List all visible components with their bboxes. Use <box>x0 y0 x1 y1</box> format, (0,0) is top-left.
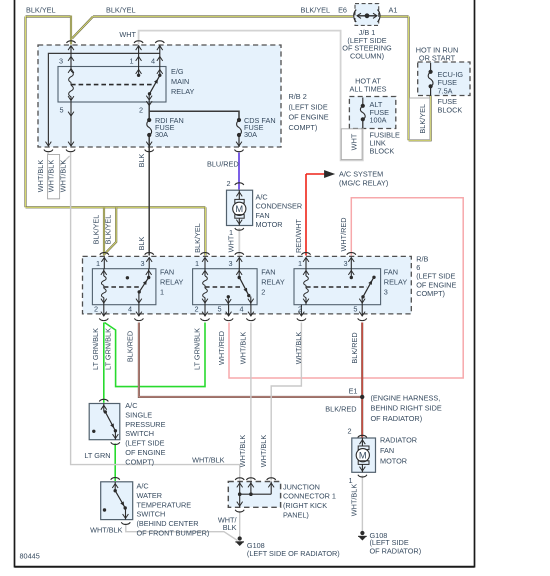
connector fan relay 2 pin 4 at R/B6 bottom edge <box>246 305 255 321</box>
E/G main relay pin 3 stub <box>68 46 74 67</box>
fan relay 3 coil <box>303 269 309 305</box>
svg-text:30A: 30A <box>155 130 168 139</box>
svg-text:LT GRN/BLK: LT GRN/BLK <box>103 328 112 370</box>
connector fan relay 3 pin 3 at R/B6 top edge <box>347 253 356 269</box>
svg-text:LT GRN/BLK: LT GRN/BLK <box>193 328 202 370</box>
svg-text:4: 4 <box>151 57 155 66</box>
svg-text:BLK/YEL: BLK/YEL <box>104 215 113 245</box>
wire BLK/RED fan relay 1 pin 4 to splice E1 <box>139 323 362 397</box>
wire BLK E/G relay pin 2 to RDI fan fuse <box>148 102 150 120</box>
svg-text:COLUMN): COLUMN) <box>350 51 384 60</box>
R/B 6 relay block box (fan relays row) <box>83 256 412 314</box>
svg-text:WHT: WHT <box>349 133 358 150</box>
svg-text:2: 2 <box>347 427 351 436</box>
E/G main relay pin 1 stub <box>136 46 142 67</box>
connector fan relay 1 pin 4 at R/B6 bottom edge <box>134 305 143 321</box>
white label plate BLK/YEL (ecu-ig feed) <box>409 98 429 140</box>
connector condenser motor pin 2 <box>235 183 244 185</box>
connector junction top pin c <box>267 478 276 480</box>
connector fan relay 3 pin 5 at R/B6 bottom edge <box>358 305 367 321</box>
svg-text:E6: E6 <box>338 6 347 15</box>
svg-text:OF FRONT BUMPER): OF FRONT BUMPER) <box>137 529 210 538</box>
fan relay 1 switch arm and pin 4 leg <box>136 278 148 305</box>
svg-text:2: 2 <box>298 305 302 314</box>
A/C system arrowhead <box>325 171 335 178</box>
svg-text:BLK/RED: BLK/RED <box>350 332 359 363</box>
svg-text:RELAY: RELAY <box>171 87 195 96</box>
svg-text:WHT: WHT <box>119 30 136 39</box>
E/G main relay inner box <box>58 67 166 103</box>
svg-text:WHT/BLK: WHT/BLK <box>238 332 247 365</box>
svg-text:CONNECTOR 1: CONNECTOR 1 <box>283 492 336 501</box>
svg-text:3: 3 <box>343 259 347 268</box>
svg-text:1: 1 <box>195 259 199 268</box>
fan relay 1 coil <box>101 269 107 305</box>
fan relay 1 control dashed line <box>104 286 141 288</box>
ground G108 (junction connector) <box>239 537 241 541</box>
svg-text:MOTOR: MOTOR <box>256 220 283 229</box>
wire LT GRN pressure switch to water temp switch <box>114 444 116 482</box>
connector R/B2 exit pin 5 <box>66 150 75 152</box>
svg-text:2: 2 <box>94 305 98 314</box>
svg-text:3: 3 <box>228 259 232 268</box>
connector junction top pin a <box>235 478 244 480</box>
E/G main relay pin 2 drop <box>146 101 152 105</box>
svg-text:FAN: FAN <box>160 268 174 277</box>
svg-text:100A: 100A <box>370 116 387 125</box>
connector R/B2 exit CDS fuse <box>235 150 244 152</box>
svg-text:RED/WHT: RED/WHT <box>294 218 303 253</box>
page border bottom <box>15 566 475 568</box>
svg-text:1: 1 <box>129 57 133 66</box>
svg-text:5: 5 <box>217 305 221 314</box>
svg-text:BLK/YEL: BLK/YEL <box>106 6 136 15</box>
connector junction top pin b <box>246 478 255 480</box>
svg-text:FAN: FAN <box>256 211 270 220</box>
wire BLK/YEL tap to fan relay 2 pin 1 <box>204 207 206 255</box>
wire BLK/YEL top-left horizontal <box>26 15 72 17</box>
svg-text:RADIATOR: RADIATOR <box>380 436 417 445</box>
svg-text:A/C: A/C <box>125 401 137 410</box>
svg-text:WHT/BLK: WHT/BLK <box>294 332 303 365</box>
A/C single pressure switch <box>89 404 120 440</box>
svg-text:SINGLE: SINGLE <box>125 410 152 419</box>
svg-text:OF ENGINE: OF ENGINE <box>125 448 165 457</box>
wire BLU/RED CDS fuse to condenser fan motor pin 2 <box>238 153 240 190</box>
svg-text:2: 2 <box>261 288 265 297</box>
svg-text:BLK: BLK <box>137 153 146 167</box>
svg-text:80445: 80445 <box>20 552 40 561</box>
J/B 1 left bracket (E6) <box>354 10 356 22</box>
white label plate WHT (alt fuse feed) <box>341 129 362 160</box>
fan relay 2 switch arm and pin 4 leg <box>240 278 254 305</box>
svg-text:OF RADIATOR): OF RADIATOR) <box>371 414 423 423</box>
svg-text:PANEL): PANEL) <box>283 510 309 519</box>
fan relay 2 pin 5 contact stub <box>225 295 231 305</box>
E/G main relay switch contact pin 1 <box>136 67 142 78</box>
A/C water temperature switch <box>101 482 133 520</box>
svg-text:WHT/BLK: WHT/BLK <box>36 160 45 193</box>
fuse CDS FAN 30A symbol <box>237 118 241 122</box>
wire BLK stub below CDS fuse <box>238 135 240 147</box>
exit chevron R/B2 bottom RDI <box>146 142 152 146</box>
wire BLK/RED fan relay 3 pin 5 through E1 to radiator fan motor <box>361 323 363 438</box>
A/C condenser fan motor M1 <box>227 190 253 225</box>
wire WHT/BLK fan relay 2 pin 4 to junction connector 1 <box>250 323 252 481</box>
svg-text:3: 3 <box>59 57 63 66</box>
svg-text:COMPT): COMPT) <box>289 123 318 132</box>
svg-text:1: 1 <box>96 259 100 268</box>
fan relay 2 pin 3 contact <box>236 269 242 279</box>
wire BLK/YEL tap to fan relay 1 pin 1 <box>103 207 105 255</box>
wire RED/WHT horizontal to A/C system arrow <box>306 173 325 175</box>
wire stub below ECU-IG fuse <box>430 86 432 96</box>
svg-text:WHT/BLK: WHT/BLK <box>46 160 55 193</box>
svg-text:BLOCK: BLOCK <box>370 146 395 155</box>
junction connector 1 internal bus <box>237 482 274 508</box>
svg-text:1: 1 <box>298 259 302 268</box>
wire BLK RDI fuse to fan relay 1 pin 3 <box>148 135 150 256</box>
svg-text:WHT/BLK: WHT/BLK <box>238 435 247 468</box>
svg-text:E/G: E/G <box>171 67 184 76</box>
E/G main relay pin 2 leg <box>146 94 152 102</box>
svg-text:MAIN: MAIN <box>171 77 189 86</box>
E/G main relay switch arm <box>148 76 160 95</box>
svg-text:WHT/RED: WHT/RED <box>217 331 226 365</box>
ALT fuse box (fusible link block) <box>349 97 395 129</box>
svg-text:7.5A: 7.5A <box>438 86 453 95</box>
svg-text:3: 3 <box>384 288 388 297</box>
wire stub below ALT fuse <box>362 119 364 128</box>
connector fan relay 2 pin 1 at R/B6 top edge <box>201 253 210 269</box>
svg-text:TEMPERATURE: TEMPERATURE <box>137 500 192 509</box>
svg-text:2: 2 <box>139 106 143 115</box>
wire WHT/BLK junction connector 1 to ground G108 <box>239 511 241 537</box>
svg-text:A/C: A/C <box>137 482 149 491</box>
ground G108 (radiator fan motor) <box>361 531 363 535</box>
svg-text:(LEFT SIDE: (LEFT SIDE <box>125 439 164 448</box>
svg-text:BLK/YEL: BLK/YEL <box>418 104 427 134</box>
svg-text:R/B 2: R/B 2 <box>289 92 307 101</box>
connector radiator motor pin 2 <box>358 435 367 437</box>
wire WHT/BLK R/B2 exit A loop <box>48 153 70 199</box>
svg-text:3: 3 <box>140 259 144 268</box>
fan relay 1 inner box <box>92 269 155 305</box>
fan relay 1 spare contact dot <box>126 276 129 279</box>
connector pressure switch bottom <box>111 442 120 444</box>
exit chevron R/B2 bottom pin 5 <box>68 142 74 146</box>
svg-text:OR START: OR START <box>419 54 456 63</box>
connector fan relay 2 pin 2 at R/B6 bottom edge <box>201 305 210 321</box>
svg-text:MOTOR: MOTOR <box>380 457 407 466</box>
connector fan relay 3 pin 2 at R/B6 bottom edge <box>297 305 306 321</box>
fuse RDI FAN 30A symbol <box>147 118 151 122</box>
wire BLK/YEL diagonal from pin 3 to J/B1 run <box>72 17 93 39</box>
wire BLK/YEL left vertical down to relay feed <box>24 17 26 208</box>
wire BLK/YEL horizontal feed to fan relays <box>26 206 206 208</box>
E/G main relay control dashed line <box>71 84 152 86</box>
junction connector 1 box <box>228 482 280 508</box>
svg-text:PRESSURE: PRESSURE <box>125 420 165 429</box>
svg-text:COMPT): COMPT) <box>416 289 445 298</box>
fuse ECU-IG 7.5A symbol <box>428 63 433 88</box>
exit chevron R/B2 bottom wire A <box>46 142 52 146</box>
wire BLK/YEL second tap with diagonal to fan relay 1 pin 1 <box>105 207 117 254</box>
svg-text:1: 1 <box>348 476 352 485</box>
svg-text:FAN: FAN <box>380 446 394 455</box>
svg-text:BLK/RED: BLK/RED <box>325 405 356 414</box>
fan relay 3 control dashed line <box>306 286 367 288</box>
svg-text:WHT/BLK: WHT/BLK <box>350 484 359 517</box>
svg-text:A1: A1 <box>389 6 398 15</box>
fuse ALT 100A symbol <box>360 98 365 122</box>
page border left <box>14 0 16 568</box>
svg-text:(ENGINE HARNESS,: (ENGINE HARNESS, <box>371 394 441 403</box>
svg-text:30A: 30A <box>244 130 257 139</box>
wire RED/WHT from A/C system to fan relay 3 pin 1 <box>305 174 307 256</box>
svg-text:4: 4 <box>239 305 243 314</box>
connector condenser motor pin 1 <box>235 228 244 230</box>
connector fan relay 3 pin 1 at R/B6 top edge <box>302 253 311 269</box>
page border right <box>474 0 476 568</box>
J/B 1 right bracket (A1) <box>378 10 380 22</box>
fan relay 2 inner box <box>193 269 258 305</box>
svg-text:BLK: BLK <box>137 236 146 250</box>
svg-text:BEHIND RIGHT SIDE: BEHIND RIGHT SIDE <box>371 404 442 413</box>
wire WHT/BLK R/B2 pin5 exit down-left-down to junction connector 1 <box>71 153 240 481</box>
svg-text:WHT/BLK: WHT/BLK <box>259 435 268 468</box>
E/G main relay pin 5 leg below box <box>68 102 74 146</box>
svg-text:(LEFT SIDE: (LEFT SIDE <box>289 102 328 111</box>
svg-text:ALL TIMES: ALL TIMES <box>350 85 387 94</box>
connector E/G pin 1 at R/B2 edge <box>134 41 143 50</box>
wire WHT from E/G relay pin 1 to ALT fuse <box>139 31 363 161</box>
connector R/B2 exit A <box>44 150 53 152</box>
svg-text:1: 1 <box>229 228 233 237</box>
svg-text:5: 5 <box>353 305 357 314</box>
connector fan relay 1 pin 3 at R/B6 top edge <box>145 253 154 269</box>
J/B 1 junction block box <box>355 4 379 26</box>
svg-text:2: 2 <box>226 179 230 188</box>
svg-text:(MG/C RELAY): (MG/C RELAY) <box>339 179 388 188</box>
svg-text:CONDENSER: CONDENSER <box>256 202 303 211</box>
svg-text:BLK/YEL: BLK/YEL <box>301 6 331 15</box>
svg-text:WHT/RED: WHT/RED <box>339 217 348 251</box>
connector R/B2 exit RDI fuse <box>145 150 154 152</box>
wire BLK/YEL horizontal to J/B 1 (E6) <box>93 15 353 17</box>
svg-text:BLK/YEL: BLK/YEL <box>26 6 56 15</box>
wire WHT condenser fan motor pin 1 to fan relay 2 pin 3 <box>238 228 240 256</box>
wire LT GRN/BLK fan relay 1 pin 2 to pressure switch <box>103 323 105 403</box>
svg-text:FAN: FAN <box>384 268 398 277</box>
svg-text:WHT/BLK: WHT/BLK <box>58 160 67 193</box>
svg-text:WHT: WHT <box>227 235 236 252</box>
fan relay 1 pin 3 contact <box>146 269 152 279</box>
connector E/G pin 4 at R/B2 edge <box>155 41 164 50</box>
wire LT GRN/BLK branch to fan relay 2 pin 2 <box>105 323 206 387</box>
svg-text:1: 1 <box>160 288 164 297</box>
svg-text:RELAY: RELAY <box>261 278 285 287</box>
svg-text:(RIGHT KICK: (RIGHT KICK <box>283 501 327 510</box>
wire BLK branch to CDS fan fuse <box>149 111 239 120</box>
connector radiator motor pin 1 <box>358 475 367 477</box>
wire BLK/YEL drop to E/G relay pin 3 <box>70 16 72 45</box>
svg-text:SWITCH: SWITCH <box>137 510 166 519</box>
fan relay 3 switch arm and pin 5 leg <box>359 278 373 305</box>
radiator fan motor M2 <box>352 438 376 472</box>
fan relay 3 pin 3 contact <box>348 269 354 279</box>
wire BLK/YEL u-turn below ECU-IG fuse <box>409 96 431 141</box>
svg-text:OF RADIATOR): OF RADIATOR) <box>370 547 422 556</box>
J/B 1 internal junction dot <box>365 13 370 18</box>
svg-text:BLK/YEL: BLK/YEL <box>193 223 202 253</box>
E/G main relay pin 4 stub <box>157 46 163 67</box>
fan relay 2 coil <box>202 269 208 305</box>
connector fan relay 1 pin 1 at R/B6 top edge <box>100 253 109 269</box>
R/B 2 relay block box (left side of engine compt) <box>38 45 281 147</box>
svg-text:BLK/YEL: BLK/YEL <box>92 215 101 245</box>
white label plate WHT/BLK (middle wire) <box>48 155 60 199</box>
svg-text:E1: E1 <box>349 387 358 396</box>
svg-text:BLK: BLK <box>223 523 237 532</box>
connector fan relay 1 pin 2 at R/B6 bottom edge <box>99 305 108 321</box>
svg-text:JUNCTION: JUNCTION <box>283 482 320 491</box>
J/B 1 connector internal line with arrows <box>357 13 377 18</box>
junction connector 1 splice dots <box>238 492 242 496</box>
E/G main relay ground bus from pin 4 to exit A <box>48 53 159 146</box>
connector fan relay 2 pin 5 at R/B6 bottom edge <box>224 305 233 321</box>
svg-text:5: 5 <box>59 106 63 115</box>
svg-text:(BEHIND CENTER: (BEHIND CENTER <box>137 519 199 528</box>
svg-text:LT GRN/BLK: LT GRN/BLK <box>91 328 100 370</box>
svg-text:(LEFT SIDE OF RADIATOR): (LEFT SIDE OF RADIATOR) <box>247 549 340 558</box>
E/G main relay coil <box>68 67 74 103</box>
fan relay 3 inner box <box>294 269 381 305</box>
connector E/G pin 3 at R/B2 edge <box>67 41 76 50</box>
exit chevron R/B2 bottom CDS <box>236 142 242 146</box>
connector fan relay 2 pin 3 at R/B6 top edge <box>235 253 244 269</box>
svg-text:OF ENGINE: OF ENGINE <box>289 113 329 122</box>
E/G main relay switch contact pin 4 <box>157 67 163 78</box>
ECU-IG fuse box <box>418 62 470 96</box>
svg-text:WHT/BLK: WHT/BLK <box>90 526 123 535</box>
svg-text:RELAY: RELAY <box>384 278 408 287</box>
svg-text:BLK/RED: BLK/RED <box>126 331 135 362</box>
wire WHT/BLK radiator fan motor pin 1 to ground G108 <box>361 476 363 532</box>
svg-text:WATER: WATER <box>137 491 163 500</box>
fan relay 3 open contact dot <box>372 276 375 279</box>
svg-text:FAN: FAN <box>261 268 275 277</box>
splice E1 dot <box>360 395 364 399</box>
svg-text:4: 4 <box>128 305 132 314</box>
svg-text:A/C: A/C <box>256 192 268 201</box>
svg-text:RELAY: RELAY <box>160 278 184 287</box>
svg-text:LT GRN: LT GRN <box>84 451 110 460</box>
connector water temp switch top <box>111 478 120 480</box>
wire WHT/RED pink loop fan relay 2 pin 5 to fan relay 3 pin 3 <box>229 198 463 378</box>
svg-text:A/C SYSTEM: A/C SYSTEM <box>339 170 383 179</box>
svg-text:SWITCH: SWITCH <box>125 429 154 438</box>
svg-text:COMPT): COMPT) <box>125 457 154 466</box>
wire BLK/YEL from J/B 1 (A1) to right corner <box>381 15 409 17</box>
svg-text:2: 2 <box>194 305 198 314</box>
svg-text:WHT/BLK: WHT/BLK <box>192 456 225 465</box>
wire WHT/BLK water temp switch to ground G108 <box>126 524 238 541</box>
connector junction bottom pin <box>235 510 244 512</box>
svg-text:BLOCK: BLOCK <box>438 105 463 114</box>
connector pressure switch top <box>99 399 108 401</box>
wire WHT/BLK fan relay 3 pin 2 to junction connector 1 <box>271 323 301 481</box>
svg-text:M: M <box>359 451 367 461</box>
connector water temp switch bottom <box>121 522 130 524</box>
fan relay 2 control dashed line <box>205 286 242 288</box>
svg-text:BLU/RED: BLU/RED <box>207 160 239 169</box>
wire BLK/YEL down right side <box>408 17 410 141</box>
svg-text:M: M <box>235 204 243 214</box>
